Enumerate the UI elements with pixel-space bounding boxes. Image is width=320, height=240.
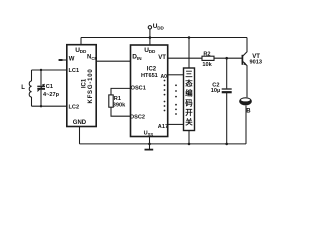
svg-text:HT651: HT651 [141,73,158,79]
svg-text:IC2: IC2 [147,67,157,73]
svg-text:关: 关 [185,118,193,127]
svg-text:VT: VT [158,55,166,61]
svg-text:B: B [246,108,251,114]
svg-text:GND: GND [73,120,87,126]
svg-text:LC1: LC1 [69,68,80,74]
svg-text:W: W [69,57,75,63]
svg-text:R2: R2 [203,51,210,57]
svg-text:L: L [21,85,25,91]
svg-text:DD: DD [157,26,164,31]
svg-text:4~27p: 4~27p [43,92,60,98]
svg-text:IN: IN [137,56,142,61]
svg-text:SS: SS [148,132,154,137]
svg-text:OSC1: OSC1 [131,85,146,91]
svg-text:编: 编 [185,89,193,98]
svg-text:A17: A17 [158,124,168,130]
svg-text:LC2: LC2 [69,105,80,111]
svg-text:KFSG-100: KFSG-100 [88,68,94,103]
svg-text:IC1: IC1 [81,78,87,88]
svg-text:OSC2: OSC2 [130,115,145,121]
svg-text:9013: 9013 [250,60,262,66]
svg-text:DD: DD [149,49,156,54]
svg-text:10k: 10k [202,62,212,68]
svg-text:10µ: 10µ [211,88,220,94]
svg-text:码: 码 [185,98,193,107]
svg-text:CP: CP [91,56,97,61]
svg-text:C1: C1 [46,84,53,90]
svg-text:开: 开 [185,108,193,117]
svg-text:态: 态 [185,79,193,88]
svg-text:390k: 390k [113,103,126,109]
svg-text:DD: DD [80,49,87,54]
svg-text:A0: A0 [161,74,168,80]
svg-text:三: 三 [185,70,193,79]
svg-text:R1: R1 [114,96,121,102]
